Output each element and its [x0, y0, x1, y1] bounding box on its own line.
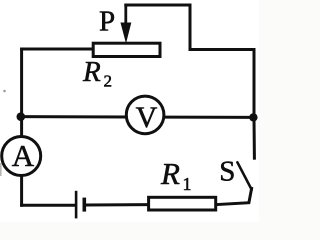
svg-text:R: R [82, 56, 101, 88]
battery cell short negative plate [83, 198, 87, 212]
voltmeter V [126, 96, 164, 134]
wire right vertical down to node B [253, 50, 256, 118]
wire step horizontal to right side [190, 48, 254, 51]
scan noise speck [3, 90, 6, 93]
rheostat R2 body [93, 43, 160, 56]
wire bottom left to battery [22, 204, 75, 207]
ammeter A [2, 137, 41, 176]
svg-text:V: V [136, 101, 158, 134]
wire left vertical rail through ammeter [20, 49, 23, 205]
wire battery to R1 [86, 203, 149, 206]
node junction dot right [249, 113, 257, 121]
wiper P arrow of rheostat [121, 4, 131, 42]
scan noise left edge smudge [0, 163, 2, 176]
svg-text:A: A [12, 138, 35, 173]
node junction dot left [17, 112, 26, 121]
svg-text:1: 1 [183, 174, 192, 194]
wire top from wiper P to step corner [126, 5, 190, 50]
wire R1 right to switch bottom [217, 189, 252, 205]
svg-text:P: P [99, 6, 115, 38]
wire voltmeter branch [21, 115, 254, 119]
wire switch stub from node B [253, 117, 256, 158]
svg-text:S: S [219, 156, 235, 188]
resistor R1 body [149, 197, 216, 210]
svg-text:R: R [160, 156, 180, 191]
battery cell long positive plate [75, 191, 78, 219]
switch S blade [237, 162, 251, 189]
wire from R2 left end to left rail [22, 48, 93, 51]
svg-text:2: 2 [104, 72, 113, 91]
